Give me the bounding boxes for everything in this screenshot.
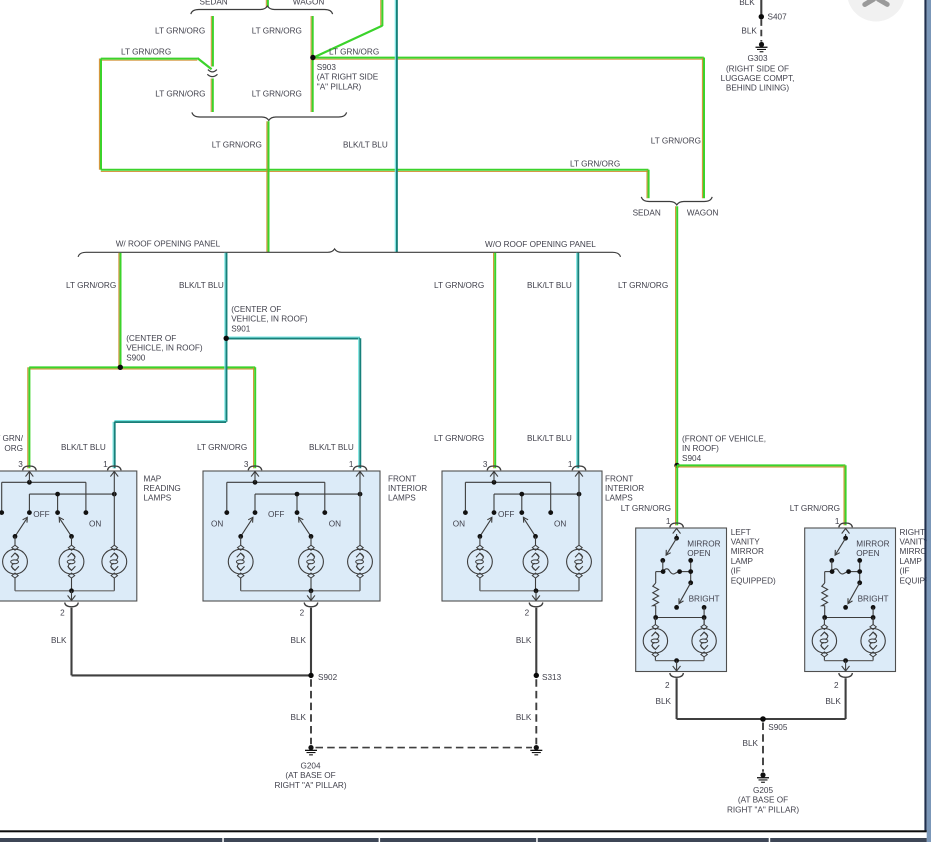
svg-text:LT GRN/: LT GRN/ — [0, 434, 24, 443]
svg-text:MIRROR: MIRROR — [731, 547, 764, 556]
svg-text:"A" PILLAR): "A" PILLAR) — [317, 82, 362, 91]
svg-text:S903: S903 — [317, 63, 337, 72]
svg-text:OFF: OFF — [268, 510, 284, 519]
svg-text:LEFT: LEFT — [731, 528, 751, 537]
svg-text:EQUIPPED): EQUIPPED) — [731, 576, 776, 585]
svg-text:LUGGAGE COMPT,: LUGGAGE COMPT, — [721, 74, 795, 83]
svg-text:BRIGHT: BRIGHT — [689, 594, 720, 603]
svg-text:S407: S407 — [768, 13, 788, 22]
svg-text:2: 2 — [525, 608, 530, 617]
svg-text:W/O ROOF OPENING PANEL: W/O ROOF OPENING PANEL — [485, 240, 596, 249]
svg-text:1: 1 — [835, 517, 840, 526]
svg-text:1: 1 — [103, 460, 108, 469]
svg-text:LT GRN/ORG: LT GRN/ORG — [121, 47, 171, 56]
svg-text:INTERIOR: INTERIOR — [605, 484, 644, 493]
svg-text:FRONT: FRONT — [605, 474, 633, 483]
svg-text:BLK: BLK — [656, 697, 672, 706]
svg-text:W/ ROOF OPENING PANEL: W/ ROOF OPENING PANEL — [116, 239, 221, 248]
svg-text:LT GRN/ORG: LT GRN/ORG — [212, 141, 262, 150]
svg-text:1: 1 — [568, 460, 573, 469]
svg-text:(AT BASE OF: (AT BASE OF — [285, 771, 335, 780]
svg-text:BLK: BLK — [516, 636, 532, 645]
svg-text:LT GRN/ORG: LT GRN/ORG — [434, 281, 484, 290]
svg-text:BEHIND LINING): BEHIND LINING) — [726, 84, 790, 93]
svg-text:3: 3 — [244, 460, 249, 469]
svg-text:(FRONT OF VEHICLE,: (FRONT OF VEHICLE, — [682, 435, 766, 444]
svg-text:ON: ON — [453, 519, 465, 528]
svg-text:OFF: OFF — [498, 510, 514, 519]
svg-text:(IF: (IF — [900, 567, 910, 576]
svg-text:LT GRN/ORG: LT GRN/ORG — [790, 504, 840, 513]
svg-text:BLK/LT BLU: BLK/LT BLU — [527, 434, 572, 443]
svg-text:(RIGHT SIDE OF: (RIGHT SIDE OF — [726, 64, 789, 73]
svg-text:LAMP: LAMP — [731, 557, 754, 566]
svg-text:LT GRN/ORG: LT GRN/ORG — [197, 443, 247, 452]
svg-text:LT GRN/ORG: LT GRN/ORG — [570, 159, 620, 168]
svg-text:BLK: BLK — [291, 636, 307, 645]
svg-text:G205: G205 — [753, 786, 773, 795]
svg-text:FRONT: FRONT — [388, 474, 416, 483]
svg-text:2: 2 — [834, 681, 839, 690]
svg-text:1: 1 — [666, 517, 671, 526]
svg-text:ORG: ORG — [4, 444, 23, 453]
svg-text:WAGON: WAGON — [687, 208, 719, 217]
svg-text:BLK: BLK — [739, 0, 755, 7]
svg-text:READING: READING — [144, 484, 181, 493]
svg-text:LT GRN/ORG: LT GRN/ORG — [434, 434, 484, 443]
svg-text:BLK/LT BLU: BLK/LT BLU — [61, 443, 106, 452]
svg-text:G204: G204 — [300, 761, 320, 770]
svg-text:S901: S901 — [231, 324, 251, 333]
svg-text:BLK/LT BLU: BLK/LT BLU — [527, 281, 572, 290]
svg-text:BLK: BLK — [291, 713, 307, 722]
svg-text:2: 2 — [300, 608, 305, 617]
svg-text:ON: ON — [329, 519, 341, 528]
svg-text:3: 3 — [483, 460, 488, 469]
svg-text:WAGON: WAGON — [293, 0, 325, 7]
svg-text:(AT RIGHT SIDE: (AT RIGHT SIDE — [317, 73, 379, 82]
svg-text:VEHICLE, IN ROOF): VEHICLE, IN ROOF) — [126, 344, 203, 353]
svg-text:LT GRN/ORG: LT GRN/ORG — [621, 504, 671, 513]
svg-text:OPEN: OPEN — [856, 549, 879, 558]
svg-text:VANITY: VANITY — [731, 538, 761, 547]
svg-text:BRIGHT: BRIGHT — [858, 594, 889, 603]
svg-text:OFF: OFF — [33, 510, 49, 519]
svg-text:LT GRN/ORG: LT GRN/ORG — [651, 136, 701, 145]
svg-text:BLK: BLK — [825, 697, 841, 706]
svg-text:LT GRN/ORG: LT GRN/ORG — [155, 27, 205, 36]
svg-text:SEDAN: SEDAN — [200, 0, 228, 7]
svg-text:G303: G303 — [747, 54, 767, 63]
svg-text:OPEN: OPEN — [687, 549, 710, 558]
svg-text:MAP: MAP — [144, 474, 162, 483]
svg-text:(CENTER OF: (CENTER OF — [126, 334, 176, 343]
svg-text:LT GRN/ORG: LT GRN/ORG — [155, 89, 205, 98]
svg-text:LAMPS: LAMPS — [388, 494, 416, 503]
svg-text:ON: ON — [89, 519, 101, 528]
svg-text:LT GRN/ORG: LT GRN/ORG — [252, 89, 302, 98]
svg-text:2: 2 — [665, 681, 670, 690]
svg-text:LAMP: LAMP — [900, 557, 923, 566]
svg-text:S905: S905 — [768, 723, 788, 732]
svg-text:(IF: (IF — [731, 567, 741, 576]
svg-text:BLK: BLK — [51, 636, 67, 645]
svg-text:S313: S313 — [542, 673, 562, 682]
svg-text:BLK/LT BLU: BLK/LT BLU — [309, 443, 354, 452]
svg-text:S900: S900 — [126, 353, 146, 362]
svg-text:BLK: BLK — [516, 713, 532, 722]
svg-text:RIGHT "A" PILLAR): RIGHT "A" PILLAR) — [727, 805, 799, 814]
svg-text:ON: ON — [211, 519, 223, 528]
svg-text:S904: S904 — [682, 454, 702, 463]
svg-text:2: 2 — [60, 608, 65, 617]
svg-text:INTERIOR: INTERIOR — [388, 484, 427, 493]
svg-text:LT GRN/ORG: LT GRN/ORG — [618, 281, 668, 290]
svg-text:BLK: BLK — [743, 739, 759, 748]
svg-text:BLK/LT BLU: BLK/LT BLU — [179, 281, 224, 290]
svg-text:LAMPS: LAMPS — [605, 494, 633, 503]
svg-text:LT GRN/ORG: LT GRN/ORG — [252, 27, 302, 36]
svg-text:LT GRN/ORG: LT GRN/ORG — [329, 48, 379, 57]
svg-text:BLK/LT BLU: BLK/LT BLU — [343, 141, 388, 150]
svg-text:1: 1 — [349, 460, 354, 469]
svg-text:(CENTER OF: (CENTER OF — [231, 305, 281, 314]
svg-text:3: 3 — [18, 460, 23, 469]
svg-text:LAMPS: LAMPS — [144, 494, 172, 503]
svg-text:RIGHT "A" PILLAR): RIGHT "A" PILLAR) — [274, 781, 346, 790]
svg-text:MIRROR: MIRROR — [687, 539, 720, 548]
svg-text:LT GRN/ORG: LT GRN/ORG — [66, 281, 116, 290]
svg-text:SEDAN: SEDAN — [633, 208, 661, 217]
svg-text:(AT BASE OF: (AT BASE OF — [738, 796, 788, 805]
svg-text:IN ROOF): IN ROOF) — [682, 444, 719, 453]
svg-text:ON: ON — [554, 519, 566, 528]
svg-text:VEHICLE, IN ROOF): VEHICLE, IN ROOF) — [231, 315, 308, 324]
svg-text:RIGHT: RIGHT — [900, 528, 925, 537]
svg-text:MIRROR: MIRROR — [856, 539, 889, 548]
svg-text:S902: S902 — [318, 673, 338, 682]
svg-text:BLK: BLK — [741, 27, 757, 36]
